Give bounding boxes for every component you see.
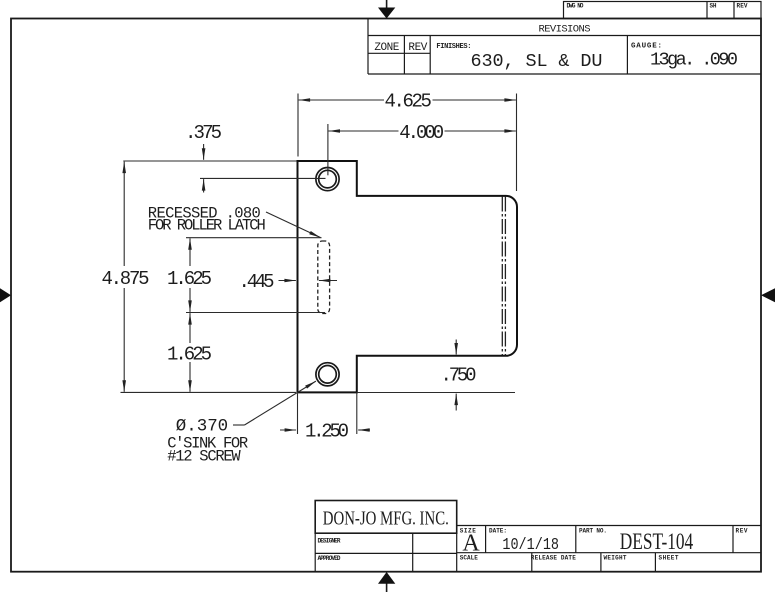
svg-text:1.625: 1.625 — [167, 268, 212, 290]
dimension 4.875 — [121, 162, 297, 393]
svg-text:Ø.370: Ø.370 — [176, 417, 229, 437]
bottom hole (countersunk) — [316, 363, 339, 386]
svg-text:13ga. .090: 13ga. .090 — [650, 50, 738, 71]
revisions block — [368, 19, 761, 75]
dimension 4.000 — [328, 124, 516, 175]
title block right section — [457, 526, 761, 572]
svg-text:SH: SH — [710, 3, 717, 10]
svg-text:1.625: 1.625 — [167, 344, 212, 366]
dimension 1.625 lower — [189, 313, 191, 392]
svg-text:SHEET: SHEET — [659, 555, 679, 562]
svg-text:REV: REV — [737, 3, 748, 10]
svg-text:RELEASE DATE: RELEASE DATE — [531, 555, 576, 562]
svg-text:.445: .445 — [239, 271, 275, 293]
svg-text:1.250: 1.250 — [305, 421, 349, 443]
recessed slot (hidden dashed) — [318, 241, 330, 314]
note csink leader — [233, 381, 316, 425]
top hole (countersunk) — [316, 168, 339, 191]
svg-text:4.875: 4.875 — [102, 268, 150, 290]
top strip DWG NO / SH / REV — [564, 2, 762, 19]
svg-text:REV: REV — [736, 528, 748, 535]
svg-text:.375: .375 — [185, 122, 222, 144]
svg-text:630, SL & DU: 630, SL & DU — [471, 51, 603, 72]
svg-text:DWG NO: DWG NO — [567, 3, 584, 10]
svg-text:ZONE: ZONE — [374, 42, 399, 54]
dimension .750 — [357, 340, 515, 411]
svg-text:FOR ROLLER LATCH: FOR ROLLER LATCH — [148, 217, 266, 235]
left center mark — [0, 288, 11, 302]
right center mark — [761, 288, 775, 302]
bottom center mark — [378, 572, 395, 592]
svg-text:.750: .750 — [441, 364, 477, 386]
note recessed leader — [266, 212, 320, 238]
bend line (double dash-dot) — [501, 197, 503, 356]
svg-text:10/1/18: 10/1/18 — [502, 536, 559, 555]
svg-text:WEIGHT: WEIGHT — [604, 555, 627, 562]
svg-text:FINISHES:: FINISHES: — [436, 43, 471, 51]
svg-text:DON-JO MFG. INC.: DON-JO MFG. INC. — [323, 509, 449, 530]
title block company box — [315, 501, 457, 534]
svg-text:APPROVED: APPROVED — [318, 555, 341, 562]
svg-text:PART NO.: PART NO. — [579, 528, 607, 535]
svg-text:REVISIONS: REVISIONS — [539, 23, 591, 35]
part outline — [298, 161, 518, 392]
dimension 1.625 upper — [186, 238, 325, 313]
svg-text:DEST-104: DEST-104 — [620, 529, 694, 554]
svg-text:DATE:: DATE: — [489, 528, 507, 535]
dimension 4.625 — [298, 94, 517, 192]
svg-text:4.625: 4.625 — [384, 90, 432, 112]
top center mark — [378, 0, 395, 19]
dimension 1.250 — [280, 392, 370, 434]
title block designer/approved rows — [315, 533, 457, 572]
svg-text:#12 SCREW: #12 SCREW — [167, 448, 241, 466]
svg-text:DESIGNER: DESIGNER — [318, 538, 341, 545]
svg-text:REV: REV — [408, 42, 427, 54]
svg-text:4.000: 4.000 — [399, 122, 444, 144]
svg-text:A: A — [462, 531, 480, 557]
